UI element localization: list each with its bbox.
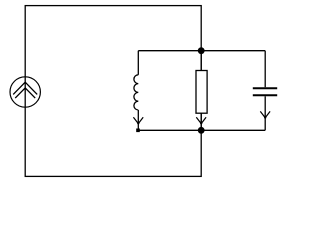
inductor L1 (left branch, with current arrow) [133,51,143,131]
capacitor C1 (right branch, parallel plates with current arrow) [253,51,277,131]
wire inner top rail (node A to capacitor branch) [138,50,265,52]
current source I1 (circle with double chevron pointing up) [10,77,40,107]
wire inner bottom rail (inductor bottom to capacitor branch) [138,129,265,131]
wire outer loop (top, left, right, bottom segments of source loop) [25,6,201,177]
node junction dot top (node A, loop right edge meets top rail) [198,47,205,54]
node junction dot bottom (node B, loop right edge meets bottom rail) [198,127,205,134]
resistor R1 (middle branch, box symbol with current arrow) [196,51,207,131]
node square at inductor bottom terminal [136,129,140,133]
